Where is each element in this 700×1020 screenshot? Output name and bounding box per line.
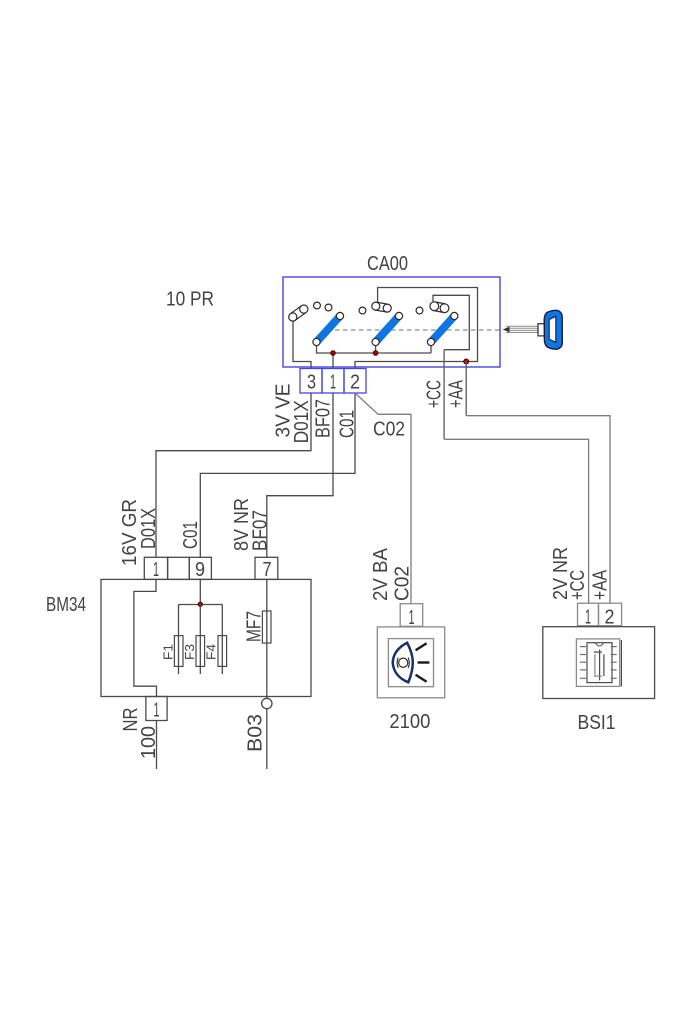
svg-text:C02: C02 (373, 419, 405, 441)
svg-text:3: 3 (307, 372, 316, 394)
lamp ray 3 (416, 675, 427, 682)
key head (blue bow) (544, 310, 562, 349)
BST1 outer box (543, 627, 655, 699)
svg-text:C01: C01 (180, 521, 202, 549)
lamp 2100 outer box (377, 627, 444, 698)
fuse F3 body (196, 636, 205, 667)
switch S3 pill contact (430, 302, 449, 313)
svg-text:D01X: D01X (138, 508, 160, 549)
wire: S2 top contact to node, +AA branch, down to pin 2 (355, 288, 478, 369)
fuse bus horizontal (179, 604, 223, 606)
IC right black line (620, 640, 622, 686)
svg-text:BF07: BF07 (250, 510, 272, 551)
svg-text:2V BA: 2V BA (370, 547, 392, 601)
IC top tick (594, 651, 602, 653)
BST1 pin box 1 (578, 603, 599, 626)
svg-text:BM34: BM34 (46, 594, 86, 616)
IC left plate (594, 654, 596, 676)
svg-text:100: 100 (138, 726, 160, 759)
switch S2 pill contact (372, 302, 391, 312)
fuse feed bus from pin 9 (199, 579, 201, 604)
wire BF07: CA00 pin1 to BM34 pin7 (267, 393, 333, 557)
svg-text:MF7: MF7 (244, 611, 266, 642)
BM34 empty pin box (168, 557, 190, 579)
IC right plate (603, 654, 605, 676)
svg-text:1: 1 (585, 607, 591, 629)
lamp eye symbol (393, 643, 413, 683)
junction dot on bus at S2 (373, 351, 378, 356)
junction dot fuse bus (198, 602, 202, 606)
svg-text:+AA: +AA (590, 569, 612, 600)
IC right pins (611, 647, 617, 679)
svg-text:F1: F1 (161, 644, 176, 660)
svg-text:1: 1 (153, 559, 159, 581)
wire bus to pin 1 (332, 353, 334, 369)
S2 floating contact circle (359, 307, 366, 314)
switch S3 blue bar (431, 316, 454, 342)
BM34 inner step wire from pin1 to bottom pin (134, 579, 157, 696)
wire C01: CA00 pin2 to BM34 pin9 (200, 393, 355, 557)
connector pin box 3 (300, 369, 322, 394)
S1 floating contact circles (314, 302, 321, 309)
lamp ray 2 (418, 661, 430, 663)
IC left pins (580, 647, 586, 679)
svg-text:+CC: +CC (424, 380, 446, 408)
switch S2 blue bar (376, 316, 399, 342)
wire +CC: CA00 to BST1 pin1 (443, 350, 445, 440)
fuse F3 wire (199, 605, 201, 675)
fuse F4 body (218, 636, 227, 667)
fuse MF7 wire from pin7 through box (266, 579, 268, 698)
fuse F4 wire (221, 605, 223, 675)
svg-text:+AA: +AA (446, 380, 468, 408)
svg-text:BF07: BF07 (313, 399, 335, 438)
svg-text:2: 2 (605, 607, 615, 629)
stub S2 bottom (375, 346, 377, 354)
svg-text:C02: C02 (392, 566, 414, 601)
svg-text:2100: 2100 (389, 711, 430, 733)
BM34 pin box 1 (144, 557, 167, 579)
wire: S3 top contact to +CC exit (433, 295, 469, 349)
svg-text:F4: F4 (204, 644, 219, 660)
key collar (538, 324, 546, 336)
svg-text:7: 7 (263, 559, 272, 581)
S3 floating contact circle (416, 307, 423, 314)
stub S3 bottom (430, 346, 432, 354)
junction dot on bus at pin1 (331, 351, 336, 356)
wire D01X: CA00 pin3 to BM34 pin1 (156, 393, 311, 557)
svg-text:CA00: CA00 (367, 253, 408, 275)
lamp 2100 pin box 1 (400, 604, 423, 627)
bottom bus wire connecting switch commons (317, 346, 432, 354)
BST1 IC body rect (587, 643, 612, 683)
BST1 IC symbol outer rect (576, 639, 619, 687)
svg-text:1: 1 (154, 700, 160, 722)
connector pin box 2 (344, 369, 366, 394)
key head hole (549, 317, 556, 343)
fuse F1 wire (178, 605, 180, 675)
wire C02: CA00 pin2 to lamp 2100 (355, 393, 411, 604)
svg-text:+CC: +CC (567, 570, 589, 600)
lamp ray 1 (416, 643, 427, 650)
splice B03 circle (262, 698, 272, 708)
wire: S1 pill to pin 3 (293, 322, 311, 369)
wire B03 down (266, 709, 268, 769)
wire +AA: CA00 to BST1 pin2 (465, 362, 467, 416)
key symbol shaft (506, 326, 539, 332)
svg-text:F3: F3 (182, 644, 197, 660)
dashed switch actuator line (335, 329, 502, 331)
IC center line (599, 650, 601, 681)
lamp 2100 inner box (388, 639, 433, 687)
ignition switch CA00 box (283, 277, 500, 367)
connector pin box 1 (322, 369, 344, 394)
svg-text:2: 2 (350, 372, 360, 394)
svg-text:1: 1 (409, 607, 415, 629)
BM34 pin box 9 (189, 557, 211, 579)
BST1 pin box 2 (599, 603, 622, 626)
key shaft tip arrow (503, 327, 510, 333)
svg-text:1: 1 (330, 372, 336, 394)
junction dot +AA branch (464, 359, 469, 364)
filament side arcs (397, 658, 398, 668)
lamp filament circle (399, 658, 408, 667)
fuse F1 body (174, 636, 183, 667)
IC notch arc (596, 643, 604, 646)
svg-text:BSI1: BSI1 (578, 712, 616, 734)
fuse box BM34 outline (101, 579, 311, 696)
svg-text:10 PR: 10 PR (166, 289, 214, 311)
svg-text:B03: B03 (245, 714, 267, 752)
svg-text:D01X: D01X (291, 400, 313, 443)
IC bottom tick (594, 675, 602, 677)
switch S1 pill contact (289, 305, 308, 321)
BM34 bottom pin box 1 (146, 697, 167, 721)
switch S1 blue bar (317, 316, 341, 342)
fuse MF7 body (262, 611, 271, 643)
BM34 pin box 7 (255, 557, 278, 579)
wire NR 100 down (156, 721, 158, 770)
svg-text:9: 9 (195, 559, 205, 581)
